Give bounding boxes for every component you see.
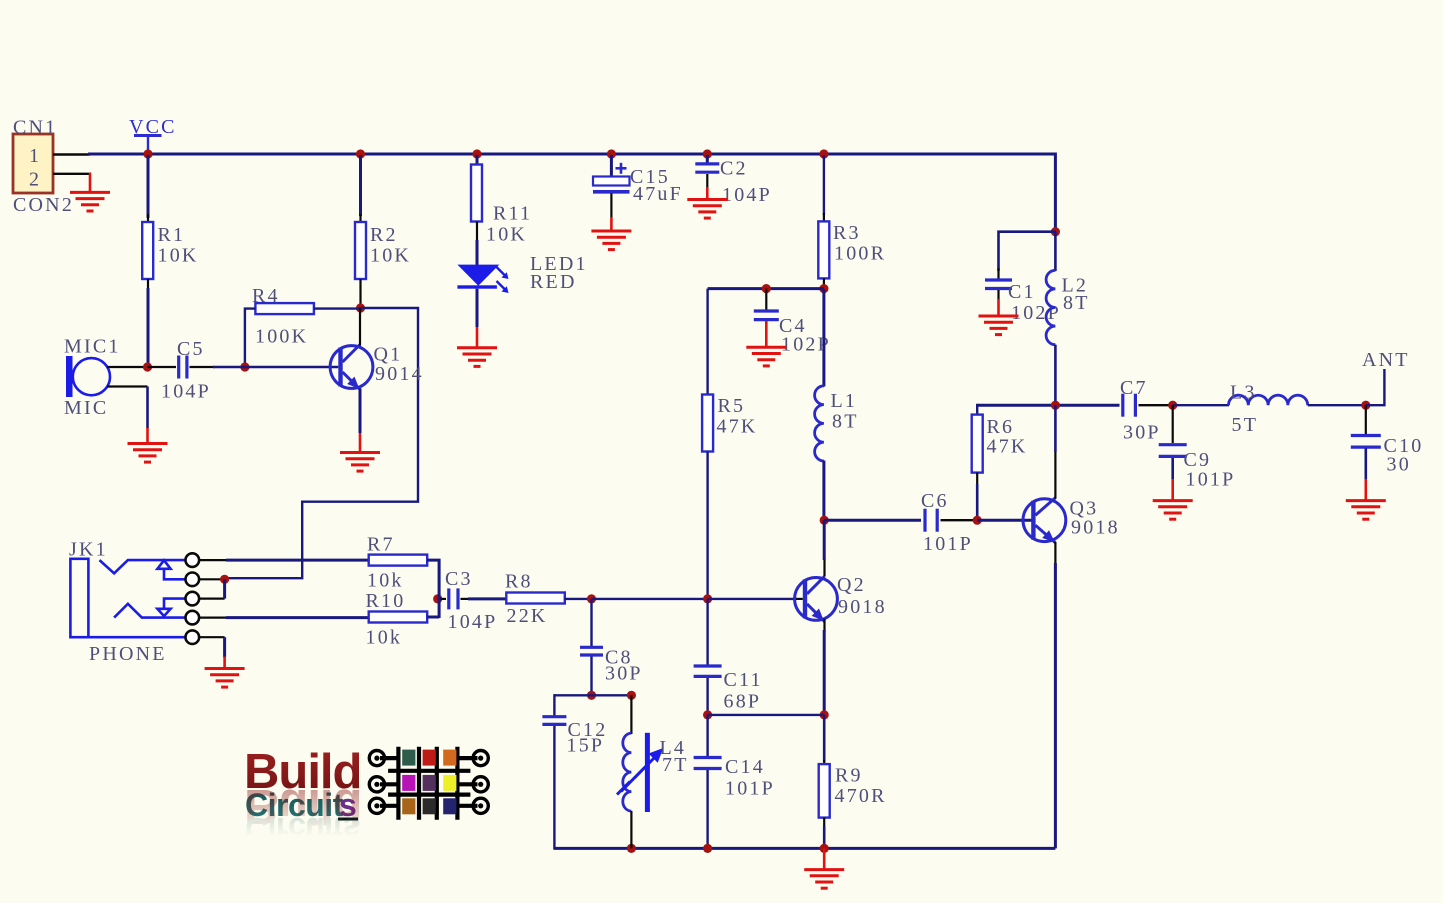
C9 top pin [1172, 405, 1174, 443]
capacitor C8 [580, 647, 603, 655]
wire VCC top rail [88, 153, 1055, 156]
transistor Q2 [795, 576, 838, 621]
wire C8 tap down [590, 599, 592, 646]
junction C11 / C14 / emitter link [703, 710, 712, 719]
ground at C15 [591, 231, 631, 250]
svg-text:8T: 8T [1063, 292, 1090, 314]
transistor Q3 [1023, 498, 1066, 543]
svg-text:68P: 68P [724, 691, 762, 713]
JK1 pin 5 lead [199, 636, 224, 638]
logo Build Circuits [244, 745, 361, 847]
svg-text:R4: R4 [252, 285, 280, 307]
C3 left pin [438, 598, 446, 600]
junction L2 / C1 [1051, 227, 1060, 236]
wire base node to Q1 [245, 366, 338, 368]
svg-text:R3: R3 [833, 222, 861, 244]
svg-text:JK1: JK1 [69, 539, 108, 561]
wire C7 node to L3 [1173, 404, 1229, 406]
junction top rail / R2 [356, 149, 365, 158]
wire to ANT [1366, 369, 1385, 405]
Q1 emitter wire [359, 389, 362, 434]
wire mic ground red stem [146, 428, 149, 444]
R9 top pin [823, 760, 825, 765]
svg-text:C1: C1 [1008, 281, 1036, 303]
svg-text:101P: 101P [923, 533, 973, 555]
C5 right pin [190, 366, 216, 368]
inductor L2 [1046, 270, 1055, 344]
R4 right pin [314, 307, 361, 309]
capacitor C3 [449, 588, 458, 609]
wire L3 to ANT node [1308, 404, 1366, 406]
svg-text:C3: C3 [445, 568, 473, 590]
svg-text:R9: R9 [835, 765, 863, 787]
R2 bottom pin [359, 279, 361, 308]
Q2 emitter pin [823, 619, 825, 632]
wire C8 to tank row [590, 657, 592, 696]
wire R1 to mic node [147, 288, 150, 367]
resistor R11 [471, 165, 482, 222]
wire to Q3 base [977, 519, 1031, 522]
svg-text:R8: R8 [505, 571, 533, 593]
C5 left pin [148, 366, 177, 368]
R1 bottom pin [147, 279, 149, 290]
transistor Q1 [330, 345, 373, 390]
C1 bottom pin [997, 290, 999, 299]
capacitor C2 [695, 164, 719, 172]
ground at LED1 [457, 348, 497, 367]
R3 top pin [823, 213, 825, 221]
wire Q2 emitter down [823, 630, 826, 715]
wire C14 to bottom rail [706, 770, 708, 848]
wire L1 to Q2 collector node [822, 461, 825, 521]
junction rail / C14 [703, 844, 712, 853]
capacitor C4 [754, 311, 779, 320]
wire junction to L2 [1054, 232, 1057, 271]
R1 top pin [147, 214, 149, 222]
svg-text:C14: C14 [725, 756, 765, 778]
C9 bottom wire [1171, 458, 1174, 479]
junction R3 / L1 / C4 row [819, 284, 828, 293]
CN1 pin 1 [53, 153, 90, 155]
capacitor C5 [179, 356, 187, 379]
junction tank row / L4 [627, 691, 636, 700]
junction R2 / R4 / Q1 collector [356, 303, 365, 312]
wire R7 to C3 node [427, 560, 439, 618]
ground at C10 [1346, 501, 1386, 520]
C15 bottom pin [610, 194, 612, 218]
wire C3 to R8 [468, 597, 507, 600]
svg-text:8T: 8T [832, 411, 859, 433]
resistor R4 [255, 303, 314, 314]
capacitor C11 [694, 666, 722, 676]
ground at bottom rail [804, 870, 844, 889]
wire emitter link [708, 714, 825, 716]
L4 top pin [630, 695, 632, 734]
junction C6 / R6 / Q3 base [973, 516, 982, 525]
wire R11 to LED1 [476, 240, 479, 265]
resistor R1 [142, 222, 153, 279]
svg-text:R5: R5 [718, 395, 746, 417]
JK1 pin 2 lead [199, 578, 224, 580]
wire Q3 collector up [1054, 405, 1057, 452]
L4 adjustment arrow [617, 748, 663, 795]
svg-text:2: 2 [29, 169, 41, 191]
junction L2 / C7 / Q3 collector [1051, 401, 1060, 410]
svg-text:MIC1: MIC1 [64, 336, 121, 358]
svg-text:5T: 5T [1232, 414, 1259, 436]
svg-text:PHONE: PHONE [89, 643, 167, 665]
junction top rail / R11 [472, 149, 481, 158]
capacitor C7 [1123, 394, 1136, 417]
Q3 emitter pin [1054, 542, 1056, 565]
JK1 pin 4 [186, 611, 200, 625]
C10 top pin [1365, 405, 1367, 434]
wire bottom rail [554, 847, 1055, 850]
C15 ground stem [610, 217, 613, 231]
junction C4 tap [762, 284, 771, 293]
wire rail to R2 [359, 155, 362, 216]
Q3 collector pin [1054, 450, 1056, 499]
wire C8 tap to Q2 base node [592, 598, 708, 600]
junction C7 / C9 / L3 [1168, 401, 1177, 410]
wire C11 to node [706, 678, 708, 715]
CN1 pin 2 [53, 173, 91, 175]
inductor L3 [1229, 395, 1308, 405]
svg-text:10K: 10K [486, 224, 527, 246]
wire tank row [554, 694, 631, 696]
junction top rail / R3 [819, 149, 828, 158]
JK1 pin 1 lead [199, 559, 228, 561]
svg-text:470R: 470R [835, 785, 887, 807]
wire R3 node to L1 [822, 289, 825, 387]
wire VCC to R1 [147, 155, 150, 218]
R11 bottom pin [476, 222, 478, 243]
C4 top pin [765, 289, 767, 311]
phone jack JK1 body [70, 559, 186, 637]
svg-text:101P: 101P [725, 778, 775, 800]
logo circuit icon [380, 747, 478, 820]
svg-text:R10: R10 [366, 590, 406, 612]
svg-text:R7: R7 [367, 534, 395, 556]
svg-text:R2: R2 [370, 224, 398, 246]
ground at CN1 pin 2 [70, 192, 110, 211]
svg-text:104P: 104P [161, 381, 211, 403]
resistor R5 [702, 395, 713, 452]
power port VCC [134, 136, 162, 153]
wire R8 to C8 tap [565, 598, 592, 600]
JK1 pin 3 lead [199, 597, 224, 599]
MIC1 pin 2 [107, 385, 148, 387]
svg-text:47K: 47K [717, 416, 758, 438]
junction R8 / C8 [587, 594, 596, 603]
wire Q2 base node to C11 [706, 599, 708, 665]
C10 bottom wire [1365, 449, 1368, 480]
svg-text:30: 30 [1387, 454, 1411, 476]
svg-text:104P: 104P [722, 184, 772, 206]
svg-text:1: 1 [29, 145, 41, 167]
Q1 collector pin [359, 308, 361, 346]
junction Q2 emitter / C11 row / R9 [820, 710, 829, 719]
svg-text:7T: 7T [662, 754, 689, 776]
C4 ground stem [765, 321, 768, 347]
wire Q2 collector node to C6 [824, 519, 921, 522]
microphone MIC1 [66, 356, 110, 397]
wire R3 node to R5 branch [708, 287, 824, 290]
svg-text:102P: 102P [1011, 302, 1061, 324]
svg-text:RED: RED [530, 271, 577, 293]
junction JK1 pin 2 net [220, 575, 229, 584]
wire R10 to C3 node [427, 616, 439, 619]
wire R6 to Q3 base node [976, 484, 979, 520]
C9 ground stem [1171, 479, 1174, 501]
svg-text:CON2: CON2 [13, 194, 74, 216]
wire C12 branch down [554, 695, 555, 716]
svg-text:Circuits: Circuits [245, 811, 360, 847]
inductor L4 [623, 733, 632, 811]
JK1 pin 2 [186, 573, 200, 587]
Q2 collector pin [823, 558, 825, 577]
wire Q3 emitter down to rail [1054, 563, 1057, 848]
Q2 base pin [794, 598, 803, 600]
wire R9 to bottom rail [823, 826, 826, 848]
wire C5 to Q1 base [213, 366, 245, 369]
R6 bottom pin [976, 473, 978, 486]
resistor R7 [369, 555, 428, 566]
junction rail / L4 [627, 844, 636, 853]
wire pin4 to R10 [226, 616, 370, 619]
wire to R5 [706, 289, 708, 396]
svg-text:10K: 10K [370, 245, 411, 267]
wire to C1 [999, 232, 1057, 271]
JK1 pin 3 [186, 592, 200, 606]
svg-text:MIC: MIC [64, 397, 108, 419]
junction R4 / C5 / Q1 base [240, 362, 249, 371]
resistor R10 [369, 612, 428, 623]
wire node to C14 [706, 715, 708, 757]
junction VCC / R1 [143, 149, 152, 158]
wire rail to C2 [706, 155, 709, 163]
C2 bottom pin [706, 174, 708, 187]
capacitor C10 [1351, 436, 1381, 448]
wire rail to R3 [823, 155, 825, 215]
capacitor C1 [985, 280, 1012, 289]
LED1 ground stem [476, 327, 479, 348]
JK1 pin 5 [186, 630, 200, 644]
wire L2 node row [977, 404, 1119, 407]
junction L3 / C10 / ANT [1361, 401, 1370, 410]
JK1 pin 4 lead [199, 616, 228, 618]
svg-text:22K: 22K [507, 605, 548, 627]
svg-text:9018: 9018 [1071, 517, 1120, 539]
C6 right pin [941, 519, 979, 521]
MIC1 pin 1 [107, 366, 148, 368]
C10 ground stem [1365, 479, 1368, 501]
wire R5 to Q2 base node [706, 452, 708, 599]
junction R5 / R8 / Q2 base / C11 [703, 594, 712, 603]
wire pin2 to ground [89, 173, 92, 193]
svg-text:10k: 10k [367, 570, 404, 592]
JK1 pin 1 [186, 553, 200, 567]
wire L2 to C7 node [1054, 345, 1057, 406]
svg-text:R11: R11 [493, 203, 532, 225]
bottom rail ground stem [823, 848, 826, 869]
pin 5 ground stem [223, 657, 226, 669]
ground at C4 [746, 347, 786, 366]
wire pins 2-3 link [223, 579, 226, 598]
svg-text:R1: R1 [158, 224, 186, 246]
svg-text:30P: 30P [1123, 422, 1161, 444]
svg-text:10k: 10k [366, 627, 403, 649]
L4 adjustable core bar [645, 733, 650, 812]
C1 ground stem [997, 299, 1000, 316]
svg-text:ANT: ANT [1362, 349, 1410, 371]
capacitor C9 [1159, 445, 1187, 457]
svg-text:C7: C7 [1120, 377, 1148, 399]
junction C8 / tank row [587, 691, 596, 700]
svg-text:L3: L3 [1230, 382, 1257, 404]
LED LED1 [457, 265, 508, 293]
junction L1 / Q2 collector [820, 516, 829, 525]
junction top rail / C2 [703, 149, 712, 158]
ground at JK1 pin 5 [205, 669, 245, 688]
junction R7 / R10 / C3 [433, 594, 442, 603]
wire pin 5 to ground [223, 637, 226, 657]
svg-text:47uF: 47uF [633, 183, 683, 205]
svg-text:100K: 100K [255, 326, 308, 348]
wire emitter node to R9 [823, 715, 826, 762]
ground at MIC1 [128, 444, 168, 463]
svg-text:30P: 30P [605, 663, 643, 685]
ground at C9 [1153, 501, 1193, 520]
svg-text:104P: 104P [448, 611, 498, 633]
wire rail to R11 [476, 155, 479, 165]
svg-text:101P: 101P [1186, 469, 1236, 491]
svg-text:47K: 47K [987, 436, 1028, 458]
wire pin1 to R7 [226, 559, 370, 562]
capacitor C14 [694, 758, 722, 769]
junction rail / R9 / ground [820, 844, 829, 853]
C7 right pin [1139, 404, 1175, 406]
R2 top pin [359, 214, 361, 222]
C1 top pin [997, 268, 999, 279]
ground at Q1 emitter [340, 453, 380, 472]
capacitor C12 [542, 717, 566, 725]
svg-text:C6: C6 [921, 490, 949, 512]
svg-text:CN1: CN1 [13, 117, 57, 139]
wire rail to C15 [610, 155, 613, 177]
ground at C1 [979, 316, 1019, 335]
svg-text:9018: 9018 [838, 596, 887, 618]
svg-text:9014: 9014 [375, 363, 424, 385]
capacitor C15 (electrolytic) [593, 163, 630, 192]
R4 left pin and wire down [245, 309, 256, 367]
R9 bottom pin [823, 818, 825, 828]
L4 bottom pin [630, 811, 632, 848]
connector CN1 [13, 134, 53, 193]
svg-text:C11: C11 [724, 669, 763, 691]
junction R1 / MIC1 / C5 [143, 362, 152, 371]
svg-text:C5: C5 [177, 338, 205, 360]
svg-text:L1: L1 [831, 390, 858, 412]
svg-text:100R: 100R [834, 243, 886, 265]
LED1 cathode wire [476, 289, 479, 327]
wire to Q2 base [708, 598, 796, 600]
inductor L1 [815, 386, 824, 461]
wire Q1 collector node to jack pin 2 [225, 308, 418, 578]
resistor R2 [355, 222, 366, 279]
junction top rail / C15 [607, 149, 616, 158]
resistor R6 [972, 415, 983, 473]
capacitor C6 [925, 509, 937, 532]
resistor R3 [818, 221, 829, 278]
svg-text:VCC: VCC [129, 116, 177, 138]
svg-text:C2: C2 [720, 158, 748, 180]
svg-text:Q2: Q2 [837, 574, 866, 596]
C3 right pin [461, 598, 471, 600]
Q1 emitter ground stem [359, 433, 362, 453]
wire C12 to bottom rail [553, 726, 555, 850]
resistor R9 [819, 764, 830, 818]
R3 bottom pin [823, 278, 825, 288]
wire top rail right corner down [1054, 153, 1057, 232]
wire Q2 collector up [823, 520, 826, 560]
svg-text:15P: 15P [567, 735, 605, 757]
C2 ground stem [706, 187, 709, 200]
ground at C2 [687, 200, 727, 219]
wire mic to ground [146, 387, 149, 429]
R6 top wire [976, 404, 978, 416]
resistor R8 [506, 593, 565, 604]
svg-text:10K: 10K [158, 245, 199, 267]
